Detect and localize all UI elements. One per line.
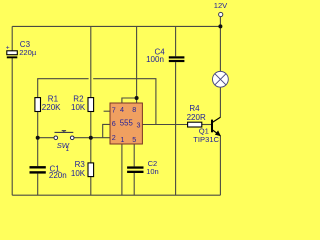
capacitor C4 (146, 48, 184, 65)
node junction dot top right (218, 24, 222, 28)
wire SW row to R3 top (90, 138, 92, 163)
wire R2 bottom to SW row (90, 112, 92, 138)
wire rail to lamp top (219, 26, 221, 71)
wire SW row left segment (38, 137, 55, 139)
svg-text:R3: R3 (75, 160, 86, 169)
svg-text:1: 1 (66, 147, 69, 153)
wire R1 top elbow (38, 79, 89, 98)
wire pin5 to C2 (133, 144, 135, 166)
wire 12V terminal to rail (219, 17, 221, 27)
node junction dot SW right (89, 136, 93, 140)
svg-text:10n: 10n (146, 167, 159, 176)
svg-text:220R: 220R (187, 113, 206, 122)
op-amp U1 555 timer (110, 103, 142, 144)
svg-text:4: 4 (120, 105, 124, 114)
svg-text:R1: R1 (48, 94, 59, 103)
svg-text:220K: 220K (42, 103, 61, 112)
transistor Q1 (193, 117, 221, 144)
svg-text:10K: 10K (71, 169, 86, 178)
wire R1 bottom to SW row (37, 112, 39, 138)
wire top rail (12, 25, 220, 27)
svg-text:5: 5 (132, 135, 136, 144)
wire rail to R2 top (90, 26, 92, 97)
capacitor C1 (30, 165, 67, 180)
resistor R2 (71, 94, 94, 112)
svg-text:555: 555 (120, 119, 134, 128)
svg-text:Q1: Q1 (199, 126, 209, 135)
wire pin1 to rail (121, 144, 123, 195)
wire C1 bottom to rail (37, 174, 39, 196)
node junction dot SW left (36, 136, 40, 140)
wire emitter to bottom rail (219, 136, 221, 195)
resistor R4 (187, 104, 206, 127)
svg-text:8: 8 (132, 105, 136, 114)
wire lamp bottom to collector (219, 87, 221, 117)
svg-text:12V: 12V (214, 1, 228, 10)
wire pin7 stub (104, 110, 110, 112)
lamp (213, 71, 229, 87)
wire left rail lower (11, 58, 13, 195)
svg-text:3: 3 (137, 120, 141, 129)
wire rail to pin8 dot (136, 26, 138, 103)
svg-text:2: 2 (112, 133, 116, 142)
node 12V terminal (219, 12, 223, 16)
wire C2 bottom to rail (133, 173, 135, 195)
svg-text:10K: 10K (71, 103, 86, 112)
capacitor C3 (6, 40, 37, 58)
switch SW1 (54, 131, 74, 153)
svg-text:220n: 220n (49, 171, 67, 180)
wire cross over R2 column to pin3 riser (93, 79, 156, 125)
node junction dot pin4/pin8 (135, 96, 139, 100)
svg-text:R4: R4 (189, 104, 200, 113)
svg-text:R2: R2 (73, 94, 84, 103)
wire bottom rail (12, 194, 220, 196)
wire SW row dot to C1 (37, 138, 39, 166)
capacitor C2 (127, 159, 159, 176)
resistor R3 (71, 160, 94, 178)
svg-text:TIP31C: TIP31C (193, 135, 219, 144)
wire R3 bottom to rail (90, 177, 92, 196)
svg-text:220µ: 220µ (19, 48, 37, 57)
wire pin3 row to R4 (142, 124, 187, 126)
svg-text:1: 1 (120, 135, 124, 144)
svg-text:100n: 100n (146, 55, 164, 64)
wire rail to C4 top (175, 26, 177, 56)
svg-text:7: 7 (112, 106, 116, 115)
svg-text:6: 6 (112, 119, 116, 128)
wire left rail upper (11, 26, 13, 50)
wire pin4 branch (122, 98, 137, 103)
wire C4 bottom to rail (175, 62, 177, 195)
wire R4 to base (202, 124, 212, 126)
resistor R1 (35, 94, 61, 112)
wire pin6 elbow (103, 124, 110, 137)
wire SW row right segment to pin2 (74, 137, 110, 139)
